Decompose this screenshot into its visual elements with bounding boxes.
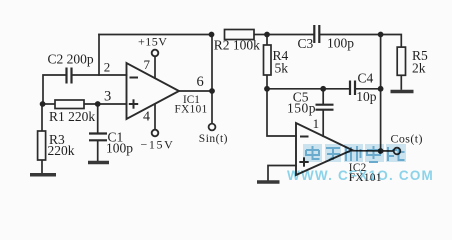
svg-text:100p: 100p	[106, 140, 133, 155]
svg-text:100p: 100p	[327, 36, 354, 51]
svg-text:2k: 2k	[412, 61, 426, 76]
node junction dots	[40, 32, 384, 154]
watermark line 1	[303, 144, 406, 162]
svg-text:7: 7	[144, 57, 151, 72]
svg-text:R2 100k: R2 100k	[214, 38, 260, 53]
op-amp U2 IC2	[296, 123, 352, 175]
svg-text:1: 1	[313, 116, 320, 131]
wire R3 bottom	[41, 160, 43, 174]
node output feedback top	[209, 32, 215, 38]
node C4 right	[378, 86, 384, 92]
wire R2 to R4 node	[254, 34, 267, 36]
wire C1 bottom	[97, 141, 99, 162]
wire output vertical to Sin terminal	[211, 35, 213, 124]
resistor R1	[49, 100, 95, 124]
wire R3 top	[41, 104, 43, 131]
wire C5 bottom lead to comp pin	[322, 111, 324, 137]
Sin(t) output terminal	[199, 124, 228, 145]
capacitor C1	[89, 134, 107, 141]
resistor R3	[38, 131, 75, 160]
node R1 left	[40, 101, 46, 107]
wire R1 left	[43, 103, 55, 105]
svg-text:FX101: FX101	[349, 172, 382, 184]
capacitor C5	[316, 105, 334, 110]
svg-text:2: 2	[104, 59, 111, 74]
svg-text:6: 6	[197, 74, 204, 90]
node IC1 output	[209, 88, 215, 94]
Cos(t) output terminal	[391, 131, 423, 154]
resistor R5	[397, 47, 428, 76]
svg-text:C2 200p: C2 200p	[48, 51, 94, 66]
node R2-R4	[264, 32, 270, 38]
capacitor C4	[350, 81, 355, 96]
wire top feedback	[99, 34, 212, 36]
svg-text:C3: C3	[298, 36, 314, 51]
wire R1 right to pin3	[84, 103, 127, 105]
svg-text:Cos(t): Cos(t)	[391, 131, 423, 145]
svg-text:5k: 5k	[275, 60, 289, 75]
svg-text:C4: C4	[358, 70, 374, 85]
op-amp U1 IC1	[127, 63, 208, 119]
wire IC1 output	[179, 90, 212, 92]
wire C3 to R5 corner	[320, 35, 402, 48]
wire IC2 noninverting input to ground	[268, 166, 296, 181]
node C3-R5	[378, 32, 384, 38]
wire C2 to pin2	[72, 74, 127, 76]
capacitor C2	[67, 68, 72, 84]
wire R5 bottom lead	[400, 75, 402, 89]
-15V supply terminal	[141, 104, 175, 152]
wire node to C4	[267, 88, 349, 90]
capacitor C3	[314, 25, 319, 43]
node R4 bottom	[264, 86, 270, 92]
ground R3	[30, 173, 56, 177]
wire C1 top	[97, 104, 99, 133]
svg-text:220k: 220k	[48, 143, 75, 158]
+15V supply terminal	[138, 35, 167, 79]
resistor R2	[214, 30, 260, 53]
wire C5 top lead	[322, 89, 324, 104]
svg-text:150p: 150p	[287, 100, 316, 115]
ground C1	[88, 161, 109, 165]
svg-text:+15V: +15V	[138, 35, 167, 49]
wire pin2 vertical	[98, 35, 100, 76]
watermark line 2	[287, 168, 434, 183]
ground IC2 input	[257, 180, 280, 184]
node C5 top	[320, 86, 326, 92]
svg-text:10p: 10p	[356, 89, 377, 104]
svg-text:4: 4	[143, 110, 150, 125]
wire R4 bottom lead	[266, 75, 268, 89]
svg-text:3: 3	[104, 88, 111, 104]
wire C2 left	[43, 75, 66, 104]
op-amp U2 IC2 value label	[349, 162, 382, 184]
svg-text:Sin(t): Sin(t)	[199, 133, 228, 145]
node IC2 output	[378, 148, 384, 154]
node R1 right	[95, 101, 101, 107]
wire IC2 output to Cos terminal	[352, 150, 394, 152]
wire R4 top lead	[266, 35, 268, 46]
wire C3R5 node down to IC2 output	[380, 35, 382, 152]
ground R5	[391, 90, 414, 94]
svg-text:FX101: FX101	[175, 104, 208, 116]
wire R4 node to C3	[267, 34, 314, 36]
svg-text:R1 220k: R1 220k	[49, 109, 95, 124]
svg-text:−15V: −15V	[141, 138, 175, 152]
wire IC2 inverting input	[267, 89, 296, 136]
wire C4 right	[356, 88, 381, 90]
resistor R4	[264, 45, 289, 75]
